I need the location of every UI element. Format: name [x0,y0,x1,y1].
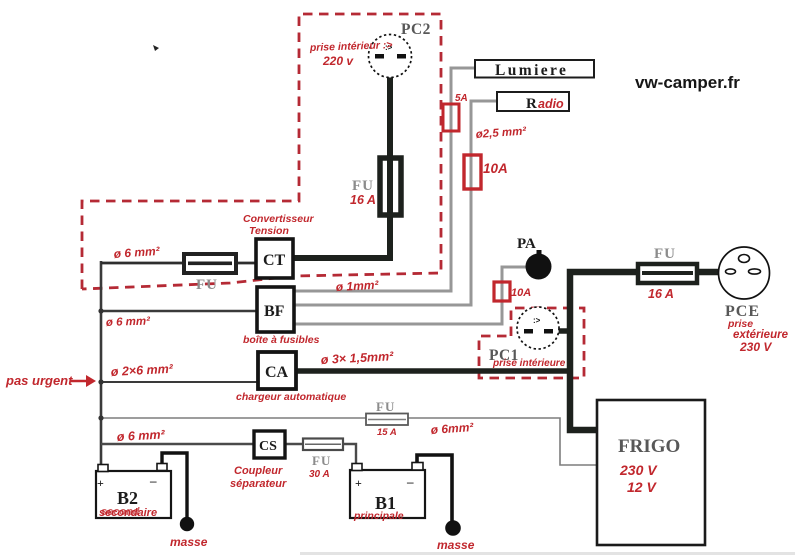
svg-text:B2: B2 [117,488,138,508]
box CT converter [256,239,293,278]
svg-text:PC2: PC2 [401,21,431,38]
scan shadow bottom edge [300,552,795,555]
dashed zone PC2 + interior boundary [82,14,441,289]
svg-text:+: + [355,476,362,490]
box CA charger [258,352,296,389]
svg-text:PA: PA [517,236,536,252]
svg-text:230 V: 230 V [739,340,772,354]
svg-text:16 A: 16 A [350,193,376,207]
wire PCE to FU16A to vertical drop to FRIGO [570,272,719,430]
wire PA to BF [295,267,529,324]
wire bus to CA [101,381,257,383]
masse ground dot B1 [445,520,461,536]
svg-text:16 A: 16 A [648,287,674,301]
box FRIGO [597,400,705,545]
svg-text:ø 6 mm²: ø 6 mm² [116,427,165,444]
battery B1 [350,463,425,519]
fuse FU 30A [303,439,343,451]
svg-text:Tension: Tension [249,225,289,237]
svg-text:prise intérieure: prise intérieure [492,358,566,369]
svg-text:10A: 10A [483,161,508,176]
svg-text:pas urgent: pas urgent [5,373,73,388]
masse ground dot B2 [180,517,194,531]
svg-text:ø 1mm²: ø 1mm² [335,278,379,294]
fuse FU 16A (PC2 drop) [380,158,401,215]
svg-text:FU: FU [352,178,374,194]
svg-text:Coupleur: Coupleur [234,465,283,477]
junction node bus-CA [98,379,103,384]
svg-text:5A: 5A [455,93,468,104]
wire CS to FU30A to B1 [285,444,356,465]
junction node bus-12V [98,415,103,420]
fuse FU (CT feed) [184,254,236,273]
svg-text:second: second [101,506,140,518]
wire bus to CT via FU [101,262,255,265]
svg-text:12 V: 12 V [627,479,657,495]
svg-text:15 A: 15 A [377,427,397,438]
svg-text:FU: FU [654,246,676,262]
svg-text:Lumiere: Lumiere [495,62,568,79]
wire PC1 socket stub [557,328,570,334]
svg-text:chargeur automatique: chargeur automatique [236,391,346,403]
wire Lumiere to BF [295,68,475,291]
svg-text::>: :> [533,316,541,325]
box BF fuse box [257,287,294,332]
svg-text:10A: 10A [511,287,531,299]
socket PC1 prise interieure [517,307,559,349]
svg-text:vw-camper.fr: vw-camper.fr [635,73,740,92]
wire B2 minus to masse [162,453,187,518]
wire Radio to BF [295,101,497,305]
fuse FU 16A (PCE line) [638,264,697,283]
fuse FU 15A [366,414,408,426]
svg-text:30 A: 30 A [309,469,330,480]
svg-text:FU: FU [376,399,395,414]
wire PC2 socket to FU16A to CT [293,72,390,258]
wire CA output to vertical main [297,368,570,374]
svg-text:CT: CT [263,252,286,269]
wire 12V to FRIGO via FU 15A [102,418,597,465]
socket PC2 prise interieure 220V [369,35,412,78]
svg-text:masse: masse [437,538,475,552]
wire left bus vertical [100,261,103,466]
svg-text:FRIGO: FRIGO [618,436,680,457]
box CS coupler [254,431,285,458]
junction node bus-BF [98,308,103,313]
svg-text:Convertisseur: Convertisseur [243,213,315,225]
box Radio [497,92,569,111]
battery B2 [96,464,171,519]
wire bus to BF [101,310,256,312]
fuse 5A (red) [443,104,459,131]
svg-text:CA: CA [265,364,289,381]
svg-text:CS: CS [259,439,277,454]
component PA cigarette plug [526,254,552,280]
svg-text:230 V: 230 V [619,462,658,478]
svg-text:masse: masse [170,535,208,549]
socket PCE prise exterieure [719,247,770,299]
svg-text:FU: FU [312,453,331,468]
svg-text:220 v: 220 v [322,54,354,68]
svg-text:ø 6 mm²: ø 6 mm² [106,315,152,329]
fuse 10A PA (red) [494,282,510,301]
svg-text:+: + [97,476,104,490]
scan speck top-left [153,45,159,51]
svg-text:–: – [406,474,414,489]
svg-text:BF: BF [264,303,285,320]
svg-text:séparateur: séparateur [230,478,287,490]
svg-text:–: – [149,473,157,488]
svg-text:FU: FU [196,277,218,293]
svg-text:R: R [526,96,537,112]
box Lumiere [475,60,594,78]
svg-text:boîte à fusibles: boîte à fusibles [243,334,320,346]
wire B1 minus to masse [417,455,452,521]
fuse 10A radio (red) [464,155,481,189]
dashed zone PC1 [479,308,584,378]
svg-text:principale: principale [353,510,404,522]
wire bus to CS [101,443,253,445]
svg-text:adio: adio [538,97,564,111]
